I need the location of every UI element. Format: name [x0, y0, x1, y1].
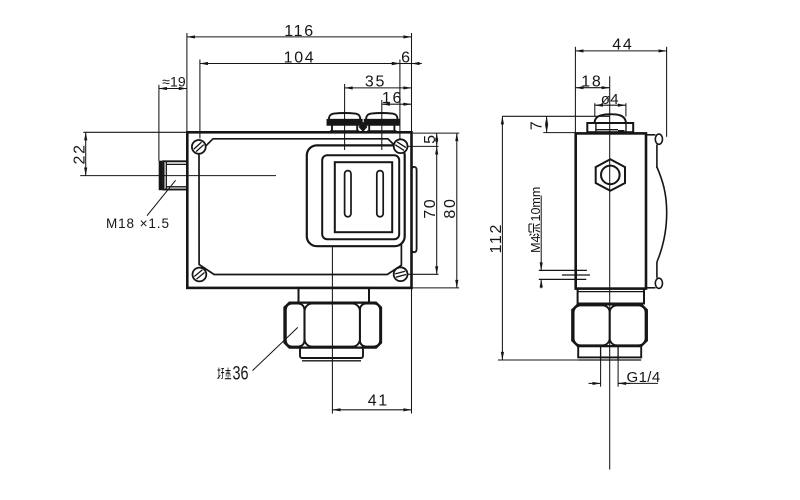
- svg-text:18: 18: [581, 73, 602, 90]
- svg-text:41: 41: [368, 393, 389, 410]
- svg-text:10mm: 10mm: [529, 187, 543, 222]
- svg-text:6: 6: [401, 49, 410, 66]
- svg-text:ø4: ø4: [601, 91, 619, 108]
- svg-text:16: 16: [382, 90, 403, 107]
- svg-text:7: 7: [529, 121, 546, 130]
- svg-text:80: 80: [442, 197, 459, 218]
- svg-text:70: 70: [422, 198, 439, 219]
- svg-text:22: 22: [71, 143, 88, 164]
- svg-text:M4: M4: [529, 235, 543, 252]
- svg-text:104: 104: [284, 49, 316, 66]
- svg-text:35: 35: [365, 74, 386, 91]
- svg-text:36: 36: [233, 363, 249, 384]
- svg-text:5: 5: [422, 135, 439, 144]
- svg-text:G1/4: G1/4: [627, 369, 661, 386]
- svg-text:44: 44: [612, 37, 633, 54]
- svg-text:112: 112: [488, 223, 505, 254]
- svg-text:≈19: ≈19: [162, 74, 186, 90]
- svg-text:M18 ×1.5: M18 ×1.5: [106, 216, 170, 231]
- svg-text:116: 116: [284, 23, 315, 40]
